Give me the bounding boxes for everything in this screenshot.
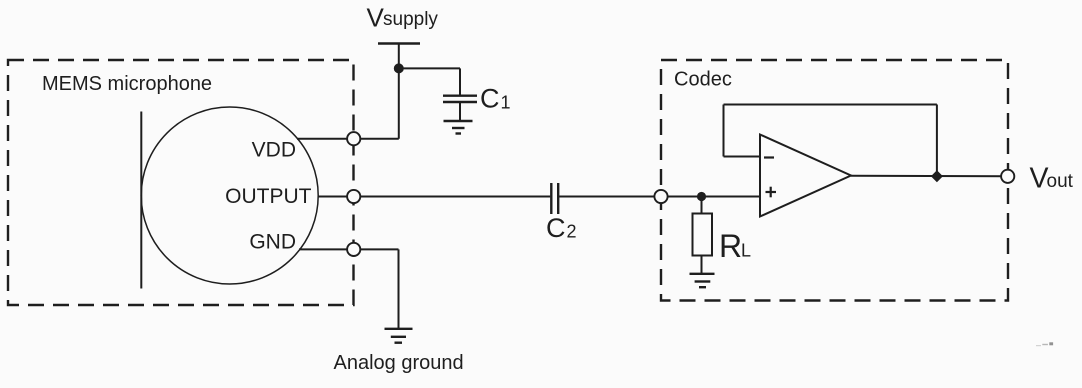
svg-text:MEMS microphone: MEMS microphone	[42, 73, 212, 95]
svg-text:Analog ground: Analog ground	[334, 352, 464, 374]
svg-text:Codec: Codec	[674, 69, 732, 91]
svg-text:R: R	[719, 228, 742, 264]
svg-text:L: L	[741, 241, 751, 261]
svg-text:OUTPUT: OUTPUT	[225, 185, 312, 208]
svg-text:out: out	[1047, 171, 1074, 192]
svg-text:VDD: VDD	[252, 139, 296, 162]
svg-text:V: V	[367, 3, 385, 33]
svg-text:1: 1	[501, 93, 511, 113]
svg-text:2: 2	[567, 222, 577, 242]
svg-text:supply: supply	[383, 9, 438, 30]
svg-text:C: C	[546, 213, 566, 243]
svg-text:C: C	[480, 83, 500, 113]
svg-text:GND: GND	[249, 231, 296, 254]
